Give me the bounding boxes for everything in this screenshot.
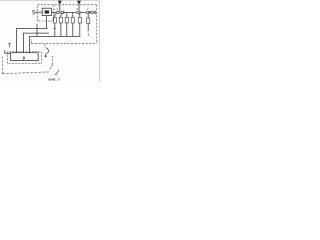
diode V4 circle <box>86 11 89 14</box>
arrow mark left of enclosure <box>8 44 11 48</box>
dashed right vertical of lower boundary <box>52 56 54 65</box>
dashed top edge of enclosure D2 <box>55 4 97 6</box>
dashed stub above arrow <box>44 44 46 48</box>
antenna A1 <box>58 1 61 4</box>
resistor bottom wires <box>55 23 88 36</box>
dashed lower-left boundary vertical <box>1 57 3 74</box>
junction tick on resistor wire <box>54 27 57 29</box>
bus B vertical drop <box>22 33 24 53</box>
resistor R1 stub up <box>55 13 63 17</box>
resistor R3 stub up <box>67 12 73 17</box>
diode V2 bar <box>63 11 65 14</box>
source S1 squiggle on input wire <box>32 10 34 14</box>
resistor R6 lower dash <box>87 33 89 36</box>
wire vertical x37 <box>36 24 38 37</box>
antenna A2 <box>77 1 80 4</box>
border frame right <box>98 0 100 82</box>
antenna A1 stem <box>59 4 61 11</box>
block 9 box <box>11 53 39 61</box>
dashed right edge of enclosure D2 <box>96 5 98 44</box>
diode V2 circle <box>61 11 64 14</box>
svg-text:ФИГ. 5: ФИГ. 5 <box>48 77 59 81</box>
arrowhead <box>45 56 47 58</box>
curved arrow near box 9 <box>45 48 48 58</box>
dashed lower boundary horizontal <box>2 72 49 74</box>
wire input to box 5 <box>35 11 43 13</box>
block B1 inner filled element <box>45 10 49 13</box>
dashed diagonal end <box>55 70 59 74</box>
dashed bottom edge of enclosure D2 <box>31 42 96 44</box>
wire diode row horizontal <box>51 11 94 13</box>
resistor R1 body <box>53 17 56 23</box>
dashed box D1 around B1 <box>37 5 54 21</box>
dashed diagonal to bottom line <box>49 65 52 71</box>
resistor R2 body <box>59 17 62 23</box>
border frame top <box>0 0 100 2</box>
wire into box 9 from left <box>5 50 11 53</box>
wire from B1 down to bus A <box>45 16 47 29</box>
resistor R3 body <box>65 17 68 23</box>
diode V1 circle <box>56 11 59 14</box>
bus A vertical drop <box>16 28 18 52</box>
bus B horizontal <box>23 32 49 34</box>
capacitor C1 to right edge <box>94 11 97 14</box>
diode V3 circle <box>77 11 80 14</box>
bus C vertical drop <box>29 36 31 52</box>
block B1 (modulator box) <box>42 8 51 15</box>
resistor R5 stub up <box>78 13 88 18</box>
bus C horizontal <box>30 35 81 37</box>
bus A horizontal <box>17 27 48 29</box>
antenna A2 stem <box>78 4 80 11</box>
resistor R4 body <box>71 17 74 23</box>
resistor R6 body <box>87 18 90 24</box>
dashed left stub of enclosure D2 <box>30 40 32 44</box>
diode V5 circle <box>91 11 94 14</box>
dashed box D3 around box 9 <box>7 52 41 64</box>
diode V4 bar <box>89 11 91 14</box>
resistor R5 body <box>78 17 81 23</box>
diode V1 bar <box>59 11 61 14</box>
diode V3 bar <box>79 11 81 14</box>
